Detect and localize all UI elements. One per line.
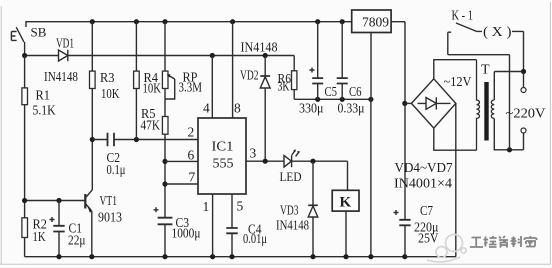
resistor R6 3K xyxy=(278,56,297,100)
(drawn with C2 above) xyxy=(0,0,1,1)
wire 7809 ground pin column xyxy=(370,33,372,257)
svg-text:6: 6 xyxy=(188,148,195,163)
svg-text:5: 5 xyxy=(237,199,244,214)
diode VD2 IN4148 xyxy=(240,56,270,162)
svg-text:0.1μ: 0.1μ xyxy=(107,162,126,177)
svg-text:5.1K: 5.1K xyxy=(33,103,56,118)
svg-text:R3: R3 xyxy=(100,70,115,85)
svg-text:VD4~VD7: VD4~VD7 xyxy=(395,160,453,175)
resistor R1 5.1K xyxy=(22,88,56,118)
node 220V junction xyxy=(521,69,526,74)
transformer primary winding xyxy=(491,100,494,118)
svg-text:47K: 47K xyxy=(141,118,161,133)
op-amp IC1 555 timer box xyxy=(198,118,246,194)
terminal upper 220V xyxy=(523,72,525,88)
wire left column xyxy=(24,56,26,257)
terminal lower 220V xyxy=(521,128,526,133)
svg-text:3.3M: 3.3M xyxy=(179,80,203,95)
wire primary bottom lead xyxy=(494,118,523,149)
svg-text:25V: 25V xyxy=(418,231,439,246)
svg-text:IC1: IC1 xyxy=(212,140,234,155)
svg-text:22μ: 22μ xyxy=(68,233,86,248)
svg-text:VD2: VD2 xyxy=(240,68,259,83)
svg-text:10K: 10K xyxy=(101,86,120,101)
svg-text:IN4148: IN4148 xyxy=(44,69,78,84)
svg-text:3: 3 xyxy=(250,146,257,161)
svg-text:4: 4 xyxy=(203,101,210,116)
connector X xyxy=(483,24,524,72)
svg-text:K - 1: K - 1 xyxy=(452,8,474,23)
diode VD1 IN4148 xyxy=(44,36,78,85)
wire pin4 column xyxy=(211,56,213,119)
svg-text:VT1: VT1 xyxy=(100,193,118,208)
diode VD3 IN4148 xyxy=(276,161,318,257)
svg-text:7809: 7809 xyxy=(362,16,389,31)
wire primary top lead xyxy=(494,72,523,101)
svg-text:LED: LED xyxy=(280,169,302,184)
svg-text:0.01μ: 0.01μ xyxy=(243,231,267,246)
resistor R3 10K xyxy=(90,22,120,140)
svg-text:0.33μ: 0.33μ xyxy=(338,101,365,116)
svg-text:VD1: VD1 xyxy=(56,36,74,51)
wire bottom ground rail xyxy=(25,256,456,258)
LED xyxy=(280,150,302,185)
wire pin8 column xyxy=(232,22,234,118)
wire top +9V rail xyxy=(26,21,352,27)
svg-text:7: 7 xyxy=(189,170,196,185)
svg-text:2: 2 xyxy=(188,125,195,140)
svg-text:555: 555 xyxy=(213,157,234,172)
svg-text:C6: C6 xyxy=(349,84,362,99)
svg-text:IN4148: IN4148 xyxy=(241,40,278,55)
wire K-1 to 220V node xyxy=(448,55,510,150)
svg-text:IN4001×4: IN4001×4 xyxy=(394,176,452,191)
wire VT1 collector column xyxy=(91,140,93,191)
wire VT1 base wire xyxy=(25,200,85,202)
resistor R4 10K xyxy=(134,22,162,140)
svg-text:1: 1 xyxy=(203,199,210,214)
svg-text:( X ): ( X ) xyxy=(483,24,512,39)
watermark text 工控资料窝 xyxy=(470,236,537,248)
watermark snail logo xyxy=(427,235,466,262)
wire LED to VD3/K node xyxy=(292,161,348,190)
svg-text:IN4148: IN4148 xyxy=(276,218,309,233)
transformer T core xyxy=(481,63,490,141)
node top rail junction dots xyxy=(90,19,345,24)
capacitor C6 0.33u xyxy=(337,22,365,116)
node junctions on y55 wire xyxy=(22,53,268,58)
relay K xyxy=(332,190,359,256)
bridge rectifier VD4-VD7 xyxy=(394,74,472,191)
svg-text:1K: 1K xyxy=(33,229,46,244)
wire RP/R5 column to C3 xyxy=(164,134,166,218)
wire pin7 wire xyxy=(165,183,198,185)
wire bridge top vertex to transformer secondary top xyxy=(434,60,477,79)
wire 7809 input from bridge xyxy=(391,22,405,220)
capacitor C1 22u xyxy=(50,201,86,257)
wire pin6 wire xyxy=(165,160,198,162)
capacitor C7 220u 25V xyxy=(394,203,439,257)
capacitor C3 1000u xyxy=(154,207,201,256)
svg-text:1000μ: 1000μ xyxy=(172,226,201,241)
svg-text:~12V: ~12V xyxy=(444,74,472,89)
regulator 7809 xyxy=(352,10,391,33)
resistor R2 1K xyxy=(22,217,47,245)
svg-text:3K: 3K xyxy=(278,79,290,94)
svg-text:C5: C5 xyxy=(325,84,338,99)
svg-text:~220V: ~220V xyxy=(506,106,546,121)
svg-text:330μ: 330μ xyxy=(299,101,324,116)
wire bridge right vertex to ground rail xyxy=(455,103,457,256)
wire VD1 anode/cathode rail y=55.5 xyxy=(25,55,295,57)
svg-text:T: T xyxy=(481,63,490,78)
wire pin1 column xyxy=(212,194,214,257)
capacitor C4 0.01u on pin5 xyxy=(226,194,267,257)
capacitor C5 330u xyxy=(299,22,337,116)
svg-text:SB: SB xyxy=(31,25,47,40)
svg-text:9013: 9013 xyxy=(98,210,122,225)
capacitor C2 0.1u xyxy=(92,133,198,177)
svg-text:K: K xyxy=(340,195,352,211)
svg-text:C7: C7 xyxy=(420,203,433,218)
potentiometer RP 3.3M xyxy=(162,22,202,99)
resistor R5 47K xyxy=(141,89,169,135)
wire bridge bottom vertex to secondary bottom xyxy=(434,128,477,150)
svg-text:R1: R1 xyxy=(36,88,51,103)
svg-text:VD3: VD3 xyxy=(280,203,299,218)
wire pin3 output wire xyxy=(246,160,284,162)
transistor VT1 9013 xyxy=(85,190,122,257)
switch SB xyxy=(11,25,46,56)
transformer secondary winding xyxy=(477,60,480,151)
switch K-1 xyxy=(448,8,482,55)
svg-text:8: 8 xyxy=(234,101,241,116)
wire ground wire under C5/C6 xyxy=(294,98,371,100)
svg-text:10K: 10K xyxy=(143,81,162,96)
